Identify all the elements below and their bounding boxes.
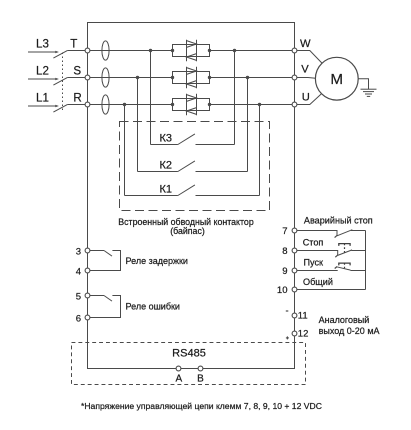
svg-text:12: 12 — [298, 329, 309, 340]
node L1 — [36, 92, 49, 105]
svg-text:Аварийный стоп: Аварийный стоп — [304, 215, 373, 225]
svg-text:11: 11 — [298, 311, 308, 322]
node R output tap — [258, 103, 261, 106]
svg-text:4: 4 — [76, 267, 81, 278]
wire L3 input — [28, 51, 59, 54]
svg-text:RS485: RS485 — [172, 347, 206, 359]
breaker pole L1 — [53, 105, 85, 113]
terminal 3 — [76, 247, 90, 258]
svg-text:Общий: Общий — [303, 277, 333, 287]
wire L2 input — [28, 78, 59, 81]
current transformer S — [102, 68, 109, 87]
current transformer R — [102, 95, 109, 114]
label plus — [286, 336, 289, 339]
contact К3 — [151, 133, 235, 145]
node S bypass tap — [136, 76, 139, 79]
stop push button NC — [297, 244, 366, 258]
terminal 11 — [292, 311, 308, 322]
terminal 6 — [76, 314, 90, 325]
svg-text:Реле задержки: Реле задержки — [126, 256, 188, 266]
svg-text:A: A — [175, 374, 182, 385]
breaker mechanical link — [62, 53, 64, 111]
wire S tap down — [137, 78, 139, 172]
wire common row — [297, 289, 366, 291]
wire phase R left — [90, 104, 173, 106]
wire phase S right — [210, 77, 293, 79]
thyristor module S — [171, 67, 211, 88]
terminal 4 — [76, 267, 90, 278]
svg-text:Пуск: Пуск — [304, 258, 325, 268]
terminal 5 — [76, 292, 90, 303]
breaker pole L2 — [53, 78, 85, 86]
svg-text:(байпас): (байпас) — [170, 226, 205, 236]
label emergency stop — [304, 215, 373, 225]
svg-text:U: U — [302, 91, 310, 103]
node R bypass tap — [123, 103, 126, 106]
wire L1 input — [28, 105, 59, 108]
terminal 7 — [282, 226, 297, 237]
svg-text:B: B — [197, 374, 204, 385]
wire T tap down — [150, 51, 152, 145]
terminal W — [292, 38, 311, 53]
svg-text:К2: К2 — [160, 160, 173, 172]
wire bypass riser to S output — [247, 78, 249, 172]
svg-text:*Напряжение управляющей цепи к: *Напряжение управляющей цепи клемм 7, 8,… — [81, 401, 322, 411]
svg-text:S: S — [73, 64, 81, 77]
terminal 10 — [277, 285, 297, 296]
svg-text:выход 0-20 мА: выход 0-20 мА — [319, 326, 380, 336]
wire motor to ground — [358, 79, 368, 89]
wire phase R right — [210, 104, 293, 106]
terminal B — [197, 366, 204, 385]
fault relay contact — [90, 296, 180, 318]
svg-text:Аналоговый: Аналоговый — [319, 315, 370, 325]
svg-text:T: T — [70, 37, 77, 50]
node T output tap — [233, 49, 236, 52]
terminal U — [292, 91, 310, 107]
label RS485 — [172, 347, 206, 359]
label start — [304, 258, 325, 268]
node T bypass tap — [149, 49, 152, 52]
terminal V — [292, 63, 309, 80]
RS485 dashed box — [72, 343, 306, 385]
svg-text:R: R — [73, 91, 81, 104]
svg-text:8: 8 — [282, 246, 287, 257]
terminal S — [73, 64, 90, 80]
svg-text:L2: L2 — [36, 65, 49, 78]
svg-text:Стоп: Стоп — [303, 238, 324, 248]
wire control bus — [365, 231, 367, 290]
wire R tap down — [124, 105, 126, 196]
svg-text:3: 3 — [76, 247, 81, 258]
terminal 8 — [282, 246, 297, 257]
terminal 9 — [282, 266, 297, 277]
terminal R — [73, 91, 89, 107]
wire phase S left — [90, 77, 173, 79]
terminal T — [70, 37, 90, 52]
label analog output — [319, 315, 380, 336]
wire phase T left — [90, 50, 173, 52]
breaker pole L3 — [53, 51, 85, 59]
wire W to motor — [297, 51, 322, 64]
thyristor module R — [171, 94, 211, 115]
label minus — [286, 310, 289, 312]
main enclosure box — [88, 23, 295, 369]
footnote — [81, 401, 322, 411]
svg-text:L3: L3 — [36, 38, 49, 51]
node L2 — [36, 65, 49, 78]
motor M — [315, 57, 358, 100]
svg-text:M: M — [330, 71, 343, 88]
svg-text:V: V — [301, 63, 309, 75]
bypass caption — [118, 217, 254, 236]
current transformer T — [102, 41, 109, 60]
svg-text:W: W — [300, 38, 311, 50]
ground — [361, 89, 377, 96]
svg-text:7: 7 — [282, 226, 287, 237]
terminal 12 — [292, 329, 308, 340]
svg-text:5: 5 — [76, 292, 81, 303]
start push button NO — [297, 263, 366, 270]
svg-text:10: 10 — [277, 285, 288, 296]
svg-text:К1: К1 — [160, 184, 173, 196]
wire phase T right — [210, 50, 293, 52]
node L3 — [36, 38, 49, 51]
contact К2 — [138, 160, 248, 172]
node S output tap — [246, 76, 249, 79]
emergency stop contact — [297, 230, 366, 238]
svg-text:L1: L1 — [36, 92, 49, 105]
bypass contactor dashed box — [120, 122, 270, 211]
svg-text:К3: К3 — [160, 133, 173, 145]
label stop — [303, 238, 324, 248]
wire U to motor — [297, 94, 321, 105]
terminal A — [175, 366, 182, 385]
svg-text:9: 9 — [282, 266, 287, 277]
wire bypass riser to T output — [234, 51, 236, 145]
wire bypass riser to R output — [259, 105, 261, 196]
svg-text:Реле ошибки: Реле ошибки — [126, 302, 180, 312]
thyristor module T — [171, 40, 211, 61]
contact К1 — [125, 184, 260, 196]
svg-text:6: 6 — [76, 314, 81, 325]
label common — [303, 277, 333, 287]
delay relay contact — [90, 251, 188, 271]
wire V to motor — [297, 77, 316, 80]
